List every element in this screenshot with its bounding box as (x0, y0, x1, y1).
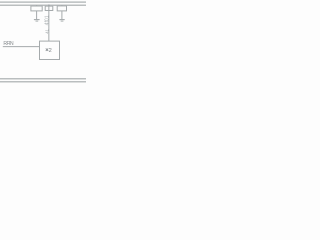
wire C2 to ground (61, 11, 63, 19)
wire bottom rail lower (0, 81, 86, 83)
wire C1 to ground (36, 11, 38, 19)
wire top rail upper (0, 1, 86, 3)
wire top rail lower (VCC bus) (0, 4, 86, 6)
svg-text:4f01: 4f01 (44, 15, 50, 25)
label x2 glyph x (46, 49, 48, 51)
node junction on VCC bus (48, 4, 50, 6)
wire RFIN to multiplier (3, 46, 40, 48)
svg-text:41: 41 (44, 28, 49, 33)
frequency multiplier U1 (40, 41, 60, 59)
wire bus to multiplier input (48, 5, 50, 41)
ground (34, 20, 40, 22)
ground (59, 20, 64, 22)
resistor R1 (45, 6, 53, 10)
capacitor C2 (57, 5, 66, 11)
wire bottom rail upper (0, 78, 86, 80)
svg-text:2: 2 (49, 48, 52, 54)
capacitor C1 (31, 5, 42, 11)
